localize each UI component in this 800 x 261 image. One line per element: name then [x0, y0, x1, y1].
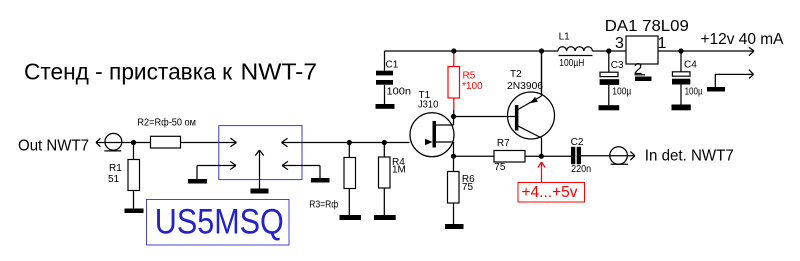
- svg-text:51: 51: [108, 174, 120, 185]
- svg-text:Стенд - приставка к: Стенд - приставка к: [24, 59, 233, 85]
- svg-text:75: 75: [462, 182, 474, 193]
- svg-text:75: 75: [494, 162, 506, 173]
- svg-text:DA1 78L09: DA1 78L09: [605, 18, 689, 35]
- svg-text:100µH: 100µH: [559, 58, 584, 69]
- svg-text:220n: 220n: [571, 164, 591, 175]
- svg-text:+4...+5v: +4...+5v: [522, 184, 578, 201]
- svg-text:C4: C4: [684, 60, 697, 71]
- svg-text:+12v 40 mA: +12v 40 mA: [701, 31, 784, 48]
- svg-text:*100: *100: [462, 81, 483, 92]
- svg-text:R5: R5: [463, 71, 476, 82]
- svg-text:C3: C3: [611, 60, 624, 71]
- svg-text:R2=Rф-50 ом: R2=Rф-50 ом: [137, 117, 196, 129]
- svg-text:L1: L1: [559, 32, 571, 43]
- svg-text:NWT-7: NWT-7: [241, 59, 318, 85]
- svg-text:1M: 1M: [392, 165, 406, 176]
- svg-text:C2: C2: [571, 137, 584, 148]
- svg-text:R7: R7: [497, 138, 510, 149]
- svg-text:US5MSQ: US5MSQ: [155, 202, 284, 241]
- svg-text:2: 2: [634, 61, 643, 78]
- svg-text:100n: 100n: [387, 87, 412, 98]
- svg-text:1: 1: [658, 35, 667, 52]
- svg-text:J310: J310: [418, 99, 439, 110]
- svg-text:2N3906: 2N3906: [507, 81, 543, 92]
- svg-text:3: 3: [615, 35, 624, 52]
- svg-text:R3=Rф: R3=Rф: [309, 199, 338, 211]
- svg-text:Out NWT7: Out NWT7: [18, 137, 89, 154]
- svg-text:T2: T2: [510, 69, 522, 80]
- svg-text:100µ: 100µ: [612, 87, 631, 98]
- svg-text:100µ: 100µ: [685, 87, 703, 98]
- svg-text:C1: C1: [386, 59, 399, 70]
- svg-text:R1: R1: [109, 163, 122, 174]
- svg-text:In det. NWT7: In det. NWT7: [645, 147, 734, 164]
